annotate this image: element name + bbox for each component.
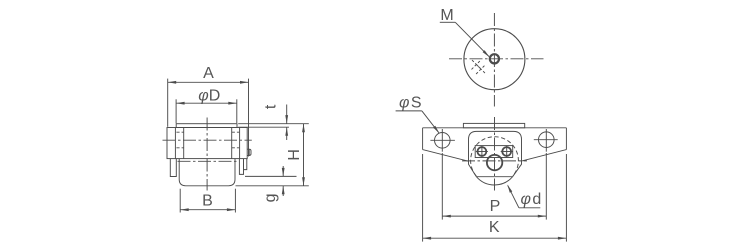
wheel side view: wheel circle [464, 29, 525, 90]
left view: right step block [244, 159, 247, 170]
front view: flange left end [422, 128, 424, 150]
dimension K line [423, 237, 567, 239]
leader M [440, 21, 456, 23]
left view: vertical center line [206, 118, 208, 191]
svg-text:φd: φd [520, 191, 541, 208]
svg-text:φD: φD [198, 87, 220, 104]
wheel side view: horizontal center line [449, 58, 544, 60]
front view: axle boss circle [487, 155, 502, 170]
dimension t extension lines [238, 123, 309, 125]
svg-text:P: P [490, 198, 501, 215]
front view: swivel housing body [469, 131, 522, 176]
left view: hidden hole lines left [176, 131, 183, 133]
left view: bracket body [167, 128, 247, 159]
front view: flange top edge [423, 127, 567, 129]
left view: body inner vertical right inner [231, 128, 233, 159]
dimension g extension line top [245, 175, 297, 177]
dimension t arrows [286, 105, 288, 124]
wheel side view: vertical center line [493, 13, 495, 107]
wheel side view: axle hole ring M [490, 54, 499, 63]
svg-text:M: M [440, 7, 453, 24]
left view: right leg tab [239, 159, 243, 175]
svg-text:B: B [202, 193, 213, 210]
wheel side view: knurl hatch dashes [472, 61, 480, 69]
left view: horizontal center line of body [163, 139, 252, 141]
front view: flange right bottom slope [521, 150, 567, 162]
left view: hidden hole lines right [232, 131, 240, 133]
leader phiS [396, 110, 422, 112]
svg-text:φS: φS [399, 95, 422, 112]
front view: flange left bottom slope [423, 150, 469, 162]
dimension H line [303, 124, 305, 186]
leader phid [519, 207, 540, 209]
front view: mounting hole left [435, 133, 451, 149]
dimension phiD line [176, 102, 237, 104]
dimension H extension line bottom [236, 185, 309, 187]
dimension P extension lines [441, 153, 443, 220]
dimension A line [168, 81, 249, 83]
svg-text:g: g [262, 193, 279, 202]
front view: rivet right [502, 147, 511, 156]
left view: left leg tab [170, 159, 176, 177]
left view: body inner vertical left outer [174, 128, 176, 159]
front view: mounting hole right [539, 132, 555, 148]
left view: body inner vertical left inner [183, 128, 185, 159]
left view: body inner vertical right outer [239, 128, 241, 159]
left view: top plate [176, 124, 237, 128]
dimension phiD extension lines [175, 99, 177, 123]
front view: housing bottom chord [476, 176, 512, 178]
dimension A extension lines [167, 79, 169, 127]
left view: wheel axle center line [178, 160, 238, 162]
svg-text:K: K [489, 219, 500, 236]
dimension B extension lines [179, 189, 181, 213]
dimension B line [180, 209, 235, 211]
svg-text:t: t [262, 104, 279, 109]
dimension K extension lines [422, 154, 424, 242]
front view: hidden wheel circle (dashed) [471, 137, 519, 177]
left view: wheel [179, 159, 235, 186]
svg-text:H: H [286, 149, 303, 161]
front view: vertical center line [494, 117, 496, 191]
dimension g arrows [282, 166, 284, 176]
svg-text:A: A [203, 65, 214, 82]
front view: wheel bottom arc (phi d) [476, 177, 512, 185]
dimension P line [442, 215, 546, 217]
front view: flange right end [565, 128, 567, 150]
front view: rivet plate rectangle [475, 146, 513, 158]
front view: top cap plate [463, 123, 524, 127]
front view: axle horizontal center line [462, 160, 527, 162]
front view: rivet left [478, 147, 487, 156]
left view: side knob [247, 149, 251, 155]
